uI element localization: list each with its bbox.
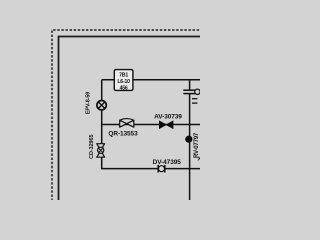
junction dot RV-07797 [185, 136, 192, 143]
svg-text:DV-47395: DV-47395 [153, 159, 182, 166]
wire: right vertical [189, 94, 191, 200]
vent dash 1 [192, 98, 197, 100]
vent dash 2 [192, 102, 197, 104]
svg-text:CD-32965: CD-32965 [89, 135, 95, 159]
wire: middle horizontal [102, 124, 200, 126]
solid inner border [59, 37, 202, 202]
wire: left vertical [101, 80, 103, 169]
svg-text:QR-13553: QR-13553 [108, 130, 138, 137]
wire: bottom horizontal [101, 168, 200, 170]
terminal circle [195, 89, 200, 94]
svg-text:X: X [198, 157, 201, 163]
valve QR-13553 (open bowtie with bonnet arc) [120, 119, 134, 128]
junction box 7B1 [114, 70, 133, 92]
svg-text:AV-30739: AV-30739 [154, 114, 182, 121]
capacitor C1 plates [183, 90, 195, 93]
wire: top horizontal [102, 79, 200, 81]
valve AV-30739 (filled bowtie) [159, 121, 173, 128]
svg-text:RV-07797: RV-07797 [194, 132, 200, 158]
wire: capacitor stub [189, 80, 191, 90]
svg-text:456: 456 [120, 85, 128, 91]
svg-text:EPV-8-59: EPV-8-59 [86, 92, 92, 114]
dashed boundary border [52, 30, 201, 201]
valve DV-47395 (inline circle with seat bars) [158, 165, 165, 173]
valve CD-32965 (vertical, with circle) [97, 144, 105, 158]
indicator lamp EPV-8-59 [97, 101, 106, 110]
svg-text:L6-10: L6-10 [117, 79, 130, 85]
svg-text:7B1: 7B1 [119, 73, 128, 79]
